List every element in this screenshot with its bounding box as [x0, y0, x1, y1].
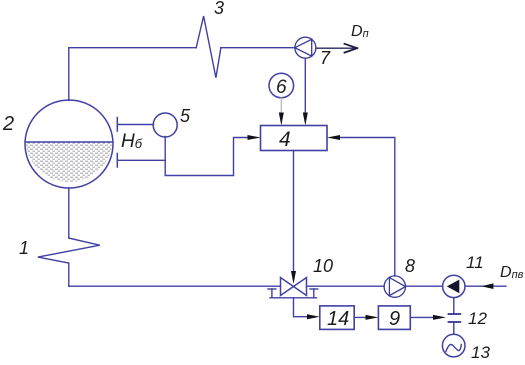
svg-text:13: 13 [471, 343, 490, 362]
wire steam riser from drum top [68, 48, 70, 101]
svg-text:6: 6 [276, 77, 287, 98]
wire sensor 8 to controller 4 [327, 135, 395, 276]
svg-text:4: 4 [279, 128, 291, 151]
svg-text:Dп: Dп [351, 23, 369, 40]
flow sensor 8 [384, 276, 405, 297]
shaft wire coupling 12 to motor 13 [453, 322, 455, 334]
break symbol 3 [196, 16, 221, 78]
svg-text:1: 1 [19, 238, 29, 258]
svg-text:12: 12 [468, 309, 487, 328]
wire sensor 5 to controller 4 [165, 135, 260, 176]
wire sensor 7 to controller 4 [303, 58, 308, 125]
svg-text:14: 14 [327, 308, 349, 330]
wire drum leg to pipe [68, 263, 70, 286]
arrow block 9 to coupling 12 [410, 315, 446, 320]
svg-text:10: 10 [313, 256, 333, 276]
boiler drum 2 [25, 100, 113, 188]
level tap upper tick [116, 118, 118, 132]
feedwater pipe valve to sensor 8 [307, 285, 385, 287]
wire valve to block 14 [294, 298, 320, 319]
feedwater pipe sensor 8 to pump 11 [406, 285, 443, 287]
feedwater pipe left segment [69, 285, 281, 287]
level tap lower tick [116, 154, 118, 168]
valve actuator bracket [268, 289, 318, 298]
pump 11 [443, 275, 465, 297]
downcomer wire from drum bottom [68, 188, 70, 238]
flow sensor 7 [295, 37, 316, 58]
wire controller 4 to valve 10 [291, 151, 296, 285]
arrow Dпв inlet [481, 283, 493, 289]
svg-text:5: 5 [180, 106, 191, 126]
break symbol 1 [38, 238, 100, 263]
block 14 [320, 306, 354, 330]
control valve 10 [281, 278, 307, 296]
block 9 [378, 306, 410, 330]
level tap upper wire [117, 124, 153, 126]
svg-text:2: 2 [2, 113, 14, 135]
setpoint device 6 [269, 73, 294, 98]
svg-text:8: 8 [405, 256, 415, 276]
wire steam header left segment [69, 47, 196, 49]
shaft wire pump 11 to coupling 12 [453, 298, 455, 314]
svg-text:11: 11 [466, 253, 484, 272]
svg-text:9: 9 [389, 308, 400, 330]
controller 4 [261, 126, 328, 151]
arrow block 14 to block 9 [354, 315, 378, 320]
svg-text:Hб: Hб [121, 131, 143, 152]
motor 13 [442, 334, 465, 357]
level tap lower wire [117, 159, 165, 161]
coupling 12 [449, 314, 461, 322]
feedwater pipe inlet segment [465, 285, 506, 287]
svg-text:7: 7 [320, 48, 331, 68]
arrow Dп steam outlet [316, 44, 357, 53]
svg-text:Dпв: Dпв [500, 264, 524, 281]
wire setpoint 6 to controller 4 [279, 98, 284, 126]
level sensor 5 [153, 113, 177, 137]
wire steam header right segment [221, 47, 295, 49]
svg-text:3: 3 [214, 0, 224, 18]
